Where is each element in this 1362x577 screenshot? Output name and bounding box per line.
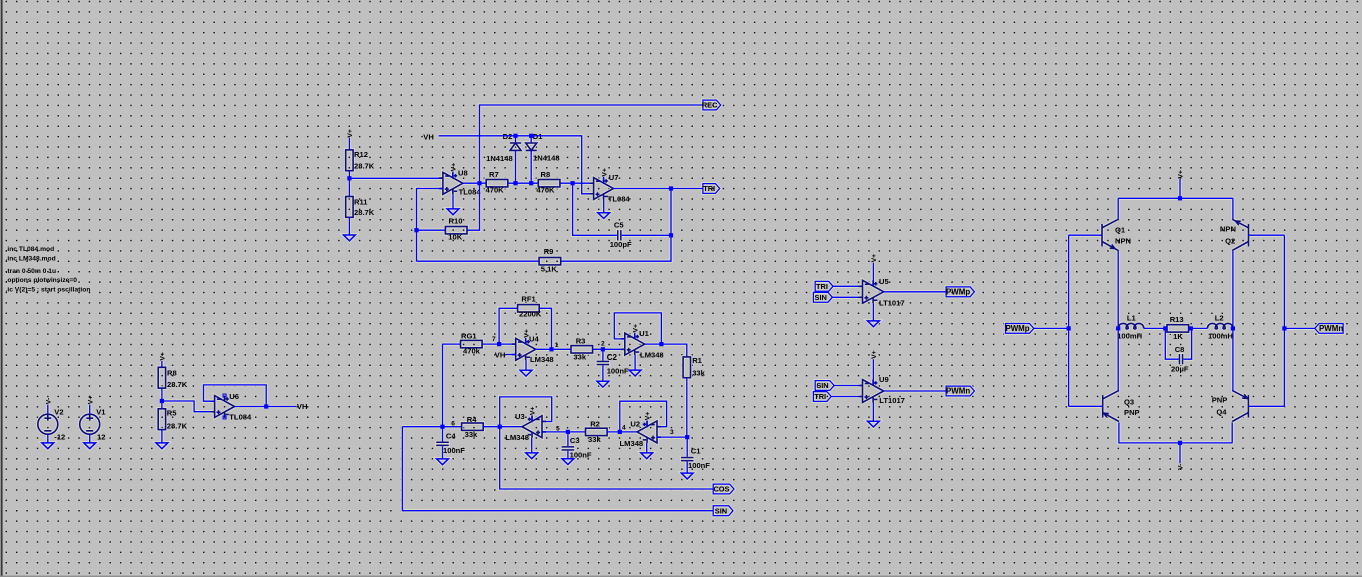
net flag PWMn input bbox=[1315, 324, 1343, 334]
svg-text:TRI: TRI bbox=[814, 392, 826, 401]
net flag TRI bbox=[703, 184, 720, 194]
svg-text:Q4: Q4 bbox=[1216, 407, 1227, 416]
wire C8 left bbox=[1165, 328, 1179, 359]
wire V+ to R8 bbox=[161, 361, 163, 367]
net flag COS bbox=[713, 484, 734, 494]
svg-text:.tran 0 50m 0 1u: .tran 0 50m 0 1u bbox=[6, 268, 57, 275]
wire V1 to ground bbox=[89, 434, 91, 443]
svg-text:100mH: 100mH bbox=[1208, 331, 1233, 340]
wire bases vertical right bbox=[1283, 235, 1285, 406]
ground below U5 bbox=[868, 321, 880, 327]
svg-text:U8: U8 bbox=[458, 169, 468, 178]
wire PWMp to bases bbox=[1034, 327, 1069, 329]
svg-text:5: 5 bbox=[556, 425, 560, 432]
svg-text:LT1017: LT1017 bbox=[879, 396, 905, 405]
svg-text:R10: R10 bbox=[449, 217, 463, 226]
wire U1 feedback loop bbox=[614, 313, 661, 344]
svg-text:SIN: SIN bbox=[815, 293, 827, 302]
wire R8b to U7 -input bbox=[560, 182, 594, 184]
svg-text:Q1: Q1 bbox=[1115, 226, 1126, 235]
wire C3 to ground bbox=[567, 451, 569, 459]
svg-text:2200K: 2200K bbox=[519, 310, 542, 319]
capacitor C4 bbox=[436, 442, 449, 447]
resistor R7 bbox=[486, 180, 508, 187]
transistor Q1 bbox=[1102, 219, 1118, 250]
svg-text:12: 12 bbox=[97, 432, 105, 441]
junction COS tap bbox=[498, 425, 502, 429]
wire C2 to ground bbox=[602, 365, 604, 381]
net flag SIN bbox=[713, 506, 733, 516]
junction R13 left bbox=[1163, 326, 1167, 330]
svg-text:10K: 10K bbox=[448, 233, 462, 242]
svg-text:RG1: RG1 bbox=[461, 331, 477, 340]
svg-text:28.7K: 28.7K bbox=[167, 421, 188, 430]
svg-text:V+: V+ bbox=[871, 350, 878, 359]
resistor RF1 bbox=[518, 305, 540, 312]
svg-text:COS: COS bbox=[713, 485, 729, 494]
svg-text:U3: U3 bbox=[515, 412, 525, 421]
svg-text:2: 2 bbox=[601, 341, 605, 348]
svg-text:SIN: SIN bbox=[715, 506, 727, 515]
resistor R4 bbox=[462, 423, 484, 430]
svg-text:100nF: 100nF bbox=[688, 461, 710, 470]
svg-text:.ic V(2)=5 ; start oscillatio: .ic V(2)=5 ; start oscillation bbox=[6, 287, 91, 294]
wire R13 to L2 bbox=[1189, 327, 1208, 329]
svg-text:470k: 470k bbox=[463, 347, 481, 356]
wire base Q2 bbox=[1249, 234, 1285, 236]
svg-text:1: 1 bbox=[555, 342, 559, 349]
wire RF1 feedback left bbox=[499, 308, 517, 344]
svg-text:U1: U1 bbox=[639, 329, 649, 338]
wire L1 node to Q3 emitter bbox=[1117, 328, 1119, 391]
wire U7 output to TRI bbox=[614, 188, 703, 190]
junction R10 node bbox=[414, 228, 418, 232]
svg-text:R8: R8 bbox=[541, 170, 551, 179]
svg-text:NPN: NPN bbox=[1220, 225, 1236, 234]
capacitor C1 bbox=[681, 457, 694, 462]
wire U6 output to VH bbox=[235, 406, 297, 408]
wire bases to PWMn bbox=[1284, 327, 1315, 329]
wire U9 to ground bbox=[872, 403, 874, 422]
svg-text:.inc TL084.mod: .inc TL084.mod bbox=[6, 246, 55, 253]
svg-text:V+: V+ bbox=[160, 352, 167, 361]
wire U9 output to PWMn flag bbox=[883, 390, 946, 392]
junction bottom rail bbox=[1178, 441, 1182, 445]
svg-text:.options plotwinsize=0: .options plotwinsize=0 bbox=[6, 277, 78, 284]
resistor R8 (470K) bbox=[538, 180, 560, 187]
svg-text:R1: R1 bbox=[692, 356, 702, 365]
wire V+ pin U1 bbox=[634, 333, 636, 340]
ground below U7 bbox=[598, 213, 610, 219]
svg-text:R3: R3 bbox=[576, 336, 586, 345]
svg-text:PWMp: PWMp bbox=[1005, 324, 1029, 333]
svg-text:D1: D1 bbox=[533, 132, 543, 141]
resistor R1 bbox=[683, 357, 690, 378]
ink halo underlay bbox=[38, 100, 1343, 515]
wire U1 to ground bbox=[634, 355, 636, 370]
wire RF1 feedback right bbox=[539, 308, 551, 349]
net flag PWMn output U9 bbox=[946, 386, 974, 396]
svg-text:TL084: TL084 bbox=[608, 194, 631, 203]
wire node6 left bbox=[402, 426, 442, 428]
svg-text:LM348: LM348 bbox=[640, 351, 664, 360]
wire base Q1 bbox=[1069, 234, 1102, 236]
wire R9 line left bbox=[417, 260, 540, 262]
voltage source V2 bbox=[38, 414, 58, 434]
comparator U9 bbox=[859, 380, 884, 403]
svg-text:C5: C5 bbox=[614, 220, 624, 229]
wire VH to D2 bbox=[515, 136, 517, 143]
wire R2 to node4 bbox=[606, 431, 636, 433]
svg-text:TRI: TRI bbox=[703, 184, 715, 193]
junction R13 right bbox=[1189, 326, 1193, 330]
svg-text:V+: V+ bbox=[87, 396, 94, 405]
svg-text:1N4148: 1N4148 bbox=[486, 154, 513, 163]
svg-text:C4: C4 bbox=[446, 431, 456, 440]
svg-text:470K: 470K bbox=[536, 186, 555, 195]
junction node 2 bbox=[601, 347, 605, 351]
junction PWMp bases bbox=[1067, 326, 1071, 330]
wire divider node to U8 -input bbox=[349, 177, 443, 179]
svg-text:V+: V+ bbox=[871, 254, 878, 263]
wire VH to D1 bbox=[530, 136, 532, 143]
svg-text:4: 4 bbox=[622, 425, 626, 432]
wire C4 to ground bbox=[442, 446, 444, 459]
svg-text:V+: V+ bbox=[644, 412, 651, 421]
wire SIN line bbox=[402, 427, 713, 511]
wire V+ pin U3 bbox=[531, 415, 533, 422]
ground below U1 bbox=[629, 370, 641, 376]
wire node6 to C4 bbox=[442, 427, 444, 442]
wire V+ to V1 bbox=[89, 405, 91, 415]
wire node2 to C2 bbox=[602, 349, 604, 360]
wire node5 to C3 bbox=[567, 432, 569, 446]
svg-text:U6: U6 bbox=[229, 392, 239, 401]
wire C1 to ground bbox=[686, 462, 688, 474]
svg-text:28.7K: 28.7K bbox=[354, 208, 375, 217]
ground below C3 bbox=[562, 459, 574, 465]
svg-text:R12: R12 bbox=[354, 150, 368, 159]
resistor R9 bbox=[539, 258, 561, 265]
wire Q1 emitter down bbox=[1117, 251, 1119, 329]
wire node6 to R4 bbox=[443, 426, 462, 428]
svg-text:Q3: Q3 bbox=[1124, 397, 1134, 406]
svg-text:5,1K: 5,1K bbox=[541, 265, 558, 274]
wire R11 to ground bbox=[348, 217, 350, 235]
wire Q2 emitter down bbox=[1232, 251, 1234, 329]
svg-text:C1: C1 bbox=[691, 446, 701, 455]
ground below C1 bbox=[681, 473, 693, 479]
svg-text:1K: 1K bbox=[1173, 332, 1183, 341]
svg-text:33k: 33k bbox=[588, 435, 601, 444]
wire R12 to R11 bbox=[348, 171, 350, 197]
wire RG1 to U4 -input bbox=[481, 343, 515, 345]
capacitor C5 (100pF) bbox=[617, 230, 622, 240]
ground below U8 bbox=[447, 209, 459, 215]
wire U3 feedback loop bbox=[500, 397, 552, 427]
transistor Q4 bbox=[1232, 390, 1248, 421]
svg-text:LM348: LM348 bbox=[505, 433, 529, 442]
resistor R2 bbox=[586, 428, 608, 435]
wire R8 to R5 bbox=[161, 388, 163, 409]
svg-text:VH: VH bbox=[423, 132, 434, 141]
svg-text:28.7K: 28.7K bbox=[167, 380, 188, 389]
wire V+ pin U7 bbox=[603, 177, 605, 184]
svg-text:LM348: LM348 bbox=[620, 439, 644, 448]
wire left of RG1 bbox=[443, 343, 461, 345]
junction D1 anode bbox=[529, 181, 533, 185]
svg-text:100nF: 100nF bbox=[607, 367, 629, 376]
junction node 6 bbox=[440, 425, 444, 429]
junction D2 cathode top bbox=[513, 134, 517, 138]
wire U2 -input to node3 bbox=[657, 436, 687, 438]
junction U1 output bbox=[659, 342, 663, 346]
wire U8 to ground bbox=[452, 194, 454, 209]
svg-text:R9: R9 bbox=[544, 247, 554, 256]
wire bases vertical left bbox=[1068, 235, 1070, 406]
op-amp U2 bbox=[637, 421, 661, 443]
ground below U2 bbox=[641, 453, 653, 459]
wire U4 to ground bbox=[525, 360, 527, 370]
svg-text:V1: V1 bbox=[96, 407, 106, 416]
junction node 1 bbox=[549, 347, 553, 351]
wire R3 to U1 +input bbox=[592, 348, 625, 350]
resistor R13 bbox=[1167, 325, 1189, 332]
svg-text:V+: V+ bbox=[529, 407, 536, 416]
svg-text:R5: R5 bbox=[167, 409, 177, 418]
junction node 5 bbox=[566, 430, 570, 434]
wire V+ to top rail bbox=[1179, 179, 1181, 199]
junction node 3 bbox=[685, 435, 689, 439]
wire V+ to U5 bbox=[872, 263, 874, 286]
svg-text:R4: R4 bbox=[467, 415, 477, 424]
ground below U3 bbox=[526, 453, 538, 459]
junction C6 tap bbox=[571, 181, 575, 185]
svg-text:V+: V+ bbox=[1178, 170, 1185, 179]
wire R5 to ground bbox=[161, 430, 163, 443]
wire node to R10 bbox=[417, 229, 446, 231]
svg-text:SIN: SIN bbox=[816, 381, 828, 390]
wire node3 to C1 bbox=[686, 437, 688, 457]
svg-text:U9: U9 bbox=[879, 375, 889, 384]
svg-text:U5: U5 bbox=[879, 277, 889, 286]
svg-text:-12: -12 bbox=[54, 432, 65, 441]
transistor Q3 bbox=[1103, 390, 1119, 421]
svg-text:V-: V- bbox=[1178, 464, 1185, 470]
wire D1 to R7-R8 node bbox=[530, 150, 532, 183]
resistor R10 bbox=[445, 227, 467, 234]
resistor R8 bbox=[158, 367, 165, 388]
resistor R5 bbox=[158, 409, 165, 430]
net flag SIN input U5 bbox=[813, 292, 832, 302]
capacitor C8 bbox=[1179, 354, 1184, 364]
net flag PWMp bbox=[946, 287, 974, 297]
node junction R12-R11 bbox=[347, 176, 351, 180]
svg-text:TRI: TRI bbox=[816, 282, 828, 291]
op-amp U6 bbox=[211, 396, 235, 418]
svg-text:U2: U2 bbox=[630, 419, 640, 428]
transistor Q2 bbox=[1232, 219, 1248, 250]
resistor R11 bbox=[346, 197, 353, 218]
node junction R8-R5 bbox=[160, 399, 164, 403]
junction node 7 bbox=[497, 342, 501, 346]
wire VH stub to U4 +input bbox=[506, 354, 516, 356]
wire divider to U6 +input bbox=[162, 401, 215, 412]
svg-text:.inc LM348.mod: .inc LM348.mod bbox=[6, 256, 56, 263]
junction node 4 bbox=[618, 430, 622, 434]
svg-text:33k: 33k bbox=[573, 352, 586, 361]
wire L2 node to Q4 bbox=[1232, 328, 1234, 391]
window bottom edge bbox=[0, 576, 1362, 577]
svg-text:PWMp: PWMp bbox=[946, 288, 970, 297]
wire U2 feedback loop bbox=[620, 401, 667, 432]
op-amp U1 bbox=[621, 333, 645, 355]
wire U5 to ground bbox=[872, 303, 874, 321]
net flag SIN input U9 bbox=[815, 381, 834, 391]
svg-text:1N4148: 1N4148 bbox=[533, 153, 560, 162]
wire R7 to R8b bbox=[508, 182, 539, 184]
ground below R5 bbox=[156, 443, 168, 449]
window left border bbox=[0, 0, 2, 577]
svg-text:RF1: RF1 bbox=[521, 294, 536, 303]
wire L1 to R13 bbox=[1144, 327, 1166, 329]
wire V+ to U9 bbox=[872, 359, 874, 385]
svg-text:100nF: 100nF bbox=[570, 450, 592, 459]
junction TRI feedback bbox=[669, 186, 673, 190]
svg-text:R2: R2 bbox=[590, 420, 600, 429]
capacitor C3 bbox=[562, 446, 575, 451]
svg-text:R11: R11 bbox=[354, 197, 368, 206]
wire SIN to U5 bbox=[832, 296, 862, 298]
wire V- to V2 bbox=[47, 405, 49, 415]
wire U1 output to R1 bbox=[645, 344, 687, 357]
wire U2 to ground bbox=[646, 443, 648, 453]
op-amp U7 bbox=[590, 178, 614, 200]
wire V+ pin U8 bbox=[452, 172, 454, 179]
svg-text:V2: V2 bbox=[54, 407, 63, 416]
svg-text:PNP: PNP bbox=[1212, 396, 1228, 405]
wire COS line bbox=[500, 427, 714, 489]
svg-text:20µF: 20µF bbox=[1171, 365, 1189, 374]
wire U8 +input down to R9 line bbox=[417, 189, 443, 262]
junction U8 output bbox=[477, 181, 481, 185]
wire U7 to ground bbox=[603, 200, 605, 213]
wire V+ pin U4 bbox=[525, 338, 527, 345]
svg-text:100nF: 100nF bbox=[443, 446, 465, 455]
wire SIN to U9 bbox=[834, 385, 862, 387]
wire R4 to U3 output bbox=[483, 426, 522, 428]
wire VH to U7 +input bbox=[439, 136, 594, 194]
wire feedback vertical and R9 line right bbox=[561, 189, 671, 262]
svg-text:V+: V+ bbox=[601, 168, 608, 177]
svg-text:REC: REC bbox=[702, 101, 718, 110]
comparator U5 bbox=[859, 280, 884, 303]
svg-text:PWMn: PWMn bbox=[1319, 324, 1343, 333]
capacitor C2 bbox=[597, 361, 610, 366]
op-amp U3 bbox=[522, 416, 546, 438]
svg-text:Q2: Q2 bbox=[1225, 237, 1235, 246]
svg-text:R7: R7 bbox=[489, 170, 499, 179]
wire bottom rail to V- bbox=[1179, 443, 1181, 463]
svg-text:33k: 33k bbox=[692, 369, 705, 378]
wire R10 up to REC line bbox=[467, 105, 703, 230]
svg-text:TL084: TL084 bbox=[459, 187, 482, 196]
svg-text:V+: V+ bbox=[451, 163, 458, 172]
inductor L2 bbox=[1207, 323, 1233, 328]
svg-text:TL084: TL084 bbox=[229, 412, 252, 421]
wire Q4 collector to bottom rail bbox=[1231, 423, 1233, 443]
svg-text:LM348: LM348 bbox=[530, 355, 554, 364]
wire base Q4 bbox=[1248, 405, 1284, 407]
wire C6 left bbox=[573, 183, 617, 235]
wire U3 to ground bbox=[531, 438, 533, 453]
svg-text:NPN: NPN bbox=[1115, 237, 1131, 246]
junction PWMn bases bbox=[1282, 326, 1286, 330]
ground below C4 bbox=[437, 459, 449, 465]
junction L2 node bbox=[1231, 326, 1235, 330]
wire C6 right bbox=[622, 234, 671, 236]
wire base Q3 bbox=[1069, 405, 1103, 407]
junction D1 top bbox=[529, 134, 533, 138]
net flag TRI input U9 bbox=[813, 392, 831, 402]
svg-text:33k: 33k bbox=[465, 430, 478, 439]
svg-text:PNP: PNP bbox=[1124, 408, 1140, 417]
junction U6 feedback bbox=[264, 404, 268, 408]
svg-text:VH: VH bbox=[297, 402, 308, 411]
ground below V2 bbox=[42, 443, 54, 449]
svg-text:100pF: 100pF bbox=[610, 240, 632, 249]
ground below R11 bbox=[344, 235, 356, 241]
diode D1 bbox=[526, 143, 537, 150]
op-amp U4 bbox=[512, 338, 536, 360]
svg-text:3: 3 bbox=[670, 429, 674, 436]
wire top rail bbox=[1118, 197, 1233, 199]
net flag PWMp input bbox=[1006, 324, 1034, 334]
wire rail to Q2 bbox=[1232, 198, 1234, 219]
svg-text:470K: 470K bbox=[486, 186, 505, 195]
wire RG1 to node6 vertical bbox=[442, 344, 444, 427]
resistor R12 bbox=[346, 150, 353, 171]
wire U6 feedback loop bbox=[204, 385, 267, 407]
ground below U4 bbox=[520, 370, 532, 376]
svg-text:L2: L2 bbox=[1215, 314, 1224, 323]
inductor L1 bbox=[1118, 323, 1144, 328]
junction top rail bbox=[1178, 196, 1182, 200]
svg-text:V+: V+ bbox=[347, 129, 354, 138]
svg-text:100mH: 100mH bbox=[1117, 331, 1142, 340]
wire V+ to R12 bbox=[348, 138, 350, 150]
junction L1 node bbox=[1116, 326, 1120, 330]
wire C8 right bbox=[1183, 328, 1191, 359]
wire U4 output to R3 bbox=[536, 348, 571, 350]
wire U8 output to R7 bbox=[463, 182, 486, 184]
wire V2 to ground bbox=[47, 434, 49, 443]
wire TRI to U9 bbox=[831, 396, 862, 398]
svg-text:C2: C2 bbox=[607, 353, 618, 362]
op-amp U8 bbox=[439, 172, 463, 194]
svg-text:V-: V- bbox=[45, 398, 52, 404]
net flag TRI input U5 bbox=[815, 281, 833, 291]
diode D2 bbox=[510, 143, 521, 150]
svg-text:7: 7 bbox=[492, 336, 496, 343]
wire V+ pin U2 bbox=[646, 421, 648, 428]
svg-text:C3: C3 bbox=[570, 436, 580, 445]
svg-text:PWMn: PWMn bbox=[946, 387, 970, 396]
wire Q3 collector to bottom rail bbox=[1119, 423, 1233, 443]
junction D2 anode bbox=[513, 181, 517, 185]
resistor RG1 bbox=[461, 340, 483, 347]
voltage source V1 bbox=[80, 414, 100, 434]
